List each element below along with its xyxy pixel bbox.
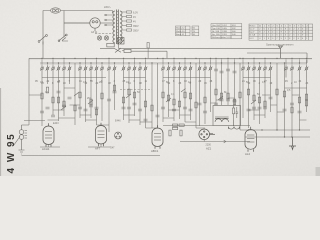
node bus B1 <box>100 48 167 58</box>
svg-text:250255902450: 250255902450 <box>259 29 310 31</box>
svg-text:E443: E443 <box>53 122 59 125</box>
svg-text:350V: 350V <box>133 30 139 33</box>
svg-text:419375282641: 419375282641 <box>259 38 310 40</box>
switch S3 <box>114 48 131 53</box>
svg-text:4V: 4V <box>133 16 136 19</box>
wire V1 cathode rail <box>40 145 60 148</box>
trimmer bank TB4 <box>122 66 148 78</box>
svg-text:Ua V: Ua V <box>250 29 255 31</box>
rectifier tube V6 <box>64 18 113 31</box>
table T-A <box>176 26 199 36</box>
label trimmer values row <box>35 80 309 85</box>
svg-text:Band 41: Band 41 <box>176 34 185 36</box>
label value marks mid <box>40 81 297 146</box>
tube socket V7 <box>115 132 122 139</box>
wire speaker bottom <box>163 126 250 143</box>
fuse lamp F1 <box>51 8 61 13</box>
switch S2 <box>58 34 68 42</box>
wire right low rail <box>240 130 310 137</box>
svg-text:2M: 2M <box>99 81 102 84</box>
label value marks top <box>104 6 139 33</box>
svg-text:E446: E446 <box>115 120 121 123</box>
wire transformer primary taps <box>95 14 113 34</box>
coil antenna input <box>14 125 30 154</box>
label table T-C cells <box>250 25 311 41</box>
wire vertical drops mid <box>124 63 241 130</box>
transformer T1 primary winding <box>113 11 115 43</box>
resistor R3 <box>147 43 149 59</box>
wire bus mid <box>29 57 312 59</box>
lamp L2 <box>104 36 108 40</box>
capacitor C1 electrolytic <box>118 38 125 45</box>
trimmer bank TB7 <box>241 66 272 78</box>
wire transformer secondary taps <box>122 12 127 30</box>
page edge left <box>0 88 1 176</box>
svg-text:ACH1: ACH1 <box>42 147 50 151</box>
wire interconnects right <box>249 88 308 120</box>
trimmer bank TB3 <box>107 66 116 78</box>
svg-text:Ug V: Ug V <box>250 32 255 34</box>
paper background <box>0 0 320 176</box>
capacitor group lower <box>40 99 302 121</box>
transformer T1 core <box>117 10 119 45</box>
trimmer bank TB5 <box>161 66 192 78</box>
tube V2 <box>96 123 107 147</box>
svg-text:1412: 1412 <box>222 25 228 27</box>
wire bus drop ticks <box>42 58 307 66</box>
wire interconnects mid center <box>124 98 235 128</box>
svg-text:6,3V: 6,3V <box>133 12 138 15</box>
wire bottom rail left <box>22 155 161 157</box>
page number mark <box>316 167 320 176</box>
svg-text:Ik mA: Ik mA <box>250 34 256 37</box>
svg-text:502450625590: 502450625590 <box>259 35 310 37</box>
label table T-A cells <box>176 28 196 37</box>
svg-text:Sp. 180: Sp. 180 <box>212 34 220 36</box>
svg-text:2M: 2M <box>87 97 90 100</box>
capacitor row mid right <box>214 69 237 73</box>
table T-B <box>211 24 242 39</box>
resistor group mid circuit <box>41 91 308 107</box>
trimmer bank TB6 <box>198 66 213 78</box>
switch S1 <box>38 35 47 45</box>
resistor R4 speaker <box>233 106 239 121</box>
tube socket V4 <box>199 129 215 140</box>
wire vertical drops right <box>243 63 307 137</box>
svg-text:826419375284: 826419375284 <box>259 32 310 34</box>
svg-text:1405: 1405 <box>222 28 228 30</box>
trimmer bank TB1 <box>40 66 71 78</box>
resistor R2 tap chain <box>127 11 132 31</box>
wire dashed AVC line <box>120 89 152 91</box>
svg-text:1398: 1398 <box>222 31 228 33</box>
wire interconnects mid left <box>24 88 109 125</box>
fuse F2 <box>107 43 114 47</box>
tube V3 <box>152 125 163 149</box>
svg-text:Typ 196: Typ 196 <box>212 28 221 30</box>
wire bus shadow line <box>29 60 312 65</box>
svg-text:ABC1: ABC1 <box>151 149 159 153</box>
wire bus segment right <box>247 53 307 63</box>
trimmer bank TB2 <box>78 66 104 78</box>
wire bus low <box>40 62 307 64</box>
label table T-B cells <box>212 24 237 39</box>
wire tie lines under trimmers <box>42 77 271 79</box>
lamp L1 <box>97 36 101 40</box>
svg-text:AZ1: AZ1 <box>206 147 212 151</box>
wire bus top <box>118 47 280 49</box>
svg-text:2200: 2200 <box>206 143 212 146</box>
svg-text:Wellenschalter 1-2-3: Wellenschalter 1-2-3 <box>212 36 233 39</box>
svg-text:220V~: 220V~ <box>104 6 112 9</box>
tube V5 <box>245 127 256 152</box>
svg-text:247: 247 <box>111 147 116 150</box>
resistor group lower <box>46 85 307 136</box>
trimmer bank TB8 <box>284 66 308 78</box>
svg-text:Uf V: Uf V <box>250 38 255 40</box>
table T-C <box>249 24 313 40</box>
wire transformer to bus <box>117 44 119 48</box>
node junction dots bus <box>41 58 307 64</box>
capacitor group mid circuit <box>46 91 295 111</box>
svg-text:Röhre: Röhre <box>250 25 257 28</box>
svg-text:4 W 95: 4 W 95 <box>6 133 17 174</box>
tube V1 <box>43 123 54 147</box>
transformer T2 output <box>215 117 229 122</box>
wire V2 cathode rail <box>88 144 111 147</box>
svg-text:Ger 204: Ger 204 <box>212 24 221 27</box>
svg-text:4V: 4V <box>133 21 136 24</box>
speaker box <box>213 106 241 126</box>
svg-text:1391: 1391 <box>222 34 228 36</box>
speaker cone <box>228 120 239 129</box>
svg-text:AL4: AL4 <box>245 152 250 156</box>
svg-text:A18264193752: A18264193752 <box>259 25 310 28</box>
ground G1 <box>289 137 296 150</box>
svg-text:Skala 12: Skala 12 <box>176 28 185 30</box>
transformer T1 secondary winding <box>120 11 122 43</box>
wire mains top loop <box>43 11 113 59</box>
switch arrows scattered <box>61 89 256 111</box>
svg-text:Spannungen gemessen: Spannungen gemessen <box>266 43 294 47</box>
svg-text:AF7: AF7 <box>95 147 101 151</box>
svg-text:Nr. 188: Nr. 188 <box>212 30 220 33</box>
node junction dots low rail <box>248 129 300 137</box>
svg-text:Welle 30: Welle 30 <box>176 31 185 33</box>
wire vertical drops left <box>29 58 115 132</box>
svg-text:350V: 350V <box>133 25 139 28</box>
antenna A1 <box>279 46 283 58</box>
